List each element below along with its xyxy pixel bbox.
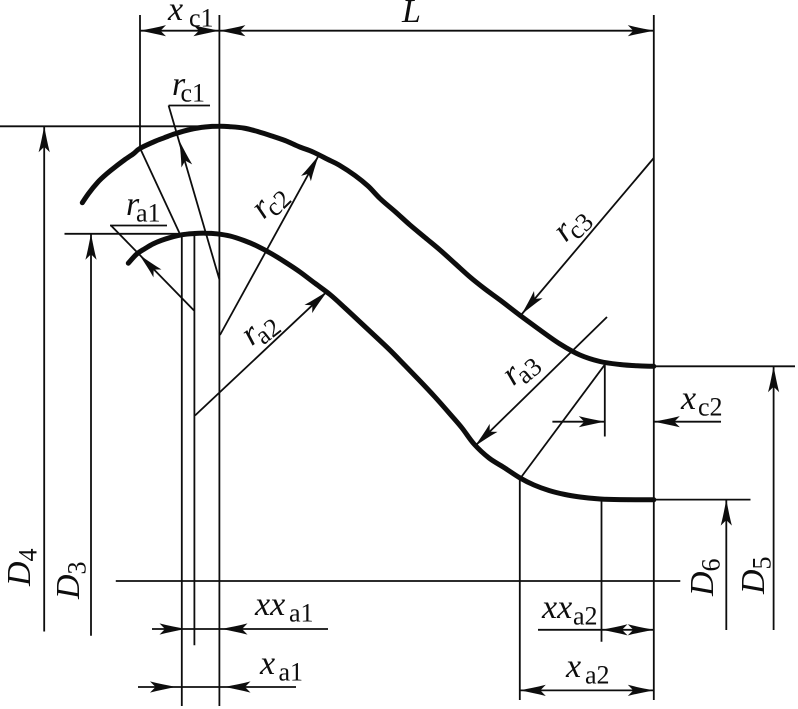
svg-text:x: x — [565, 648, 581, 685]
arrow x_a1 left — [150, 681, 176, 692]
extension line xx_a1 left — [193, 233, 195, 645]
svg-text:D: D — [735, 569, 772, 595]
extension line x_c2 left — [604, 365, 606, 437]
svg-text:a2: a2 — [573, 602, 598, 631]
extension line at D4 level — [0, 125, 222, 127]
svg-text:D: D — [50, 574, 87, 600]
arrow x_a2 left — [520, 685, 546, 696]
svg-text:6: 6 — [697, 559, 726, 572]
dimension line x_c2 right part — [654, 421, 721, 423]
svg-text:x: x — [167, 0, 183, 28]
svg-text:c2: c2 — [698, 393, 723, 422]
dimension line L — [219, 30, 653, 32]
arrow D6 up — [721, 500, 732, 526]
svg-text:D: D — [1, 561, 38, 587]
radius line r_a2 — [195, 291, 327, 415]
dimension line D6 — [725, 500, 727, 630]
svg-text:D: D — [684, 571, 721, 597]
dimension line xx_a1 — [152, 628, 328, 630]
dimension line x_c1 — [140, 30, 219, 32]
label r_c2 — [243, 175, 297, 229]
svg-text:xx: xx — [254, 586, 285, 623]
arrow x_c2 right — [654, 416, 680, 427]
extension line at D6 level — [654, 499, 751, 501]
leader r_c1 — [169, 106, 220, 280]
label D4 — [1, 549, 43, 588]
leader r_a1 — [111, 226, 194, 311]
svg-text:4: 4 — [14, 549, 43, 562]
label D5 — [735, 557, 777, 596]
extension line xx_a2 left — [601, 500, 603, 642]
shelf r_c1 — [169, 105, 210, 107]
radius line r_c2 — [220, 156, 319, 335]
extension line right main (L / x_c2 / xx_a2 / x_a2) — [653, 15, 655, 700]
dimension line x_c2 left part — [552, 421, 604, 423]
svg-text:3: 3 — [63, 562, 92, 575]
arrow x_c1 right — [193, 25, 219, 36]
svg-text:c1: c1 — [189, 4, 214, 33]
extension line x_c1 left (from arc start) — [139, 15, 141, 148]
shelf r_a1 — [110, 225, 167, 227]
svg-text:x: x — [680, 380, 696, 417]
extension line at D5 level — [654, 365, 795, 367]
svg-text:5: 5 — [748, 557, 777, 570]
svg-text:a1: a1 — [279, 658, 304, 687]
arrow xx_a2 left — [602, 624, 628, 635]
label r_c3 — [545, 198, 599, 252]
dimension line x_a1 — [138, 686, 296, 688]
dimension line xx_a2 — [538, 629, 654, 631]
arrow x_a1 right — [225, 681, 251, 692]
joint line at duct outlet — [520, 365, 605, 479]
extension line x_a1 left — [181, 235, 183, 706]
svg-text:L: L — [401, 0, 421, 30]
joint line at duct inlet — [140, 149, 180, 234]
arrow r_c3 — [517, 291, 542, 318]
label r_a2 — [234, 302, 287, 356]
axis baseline — [116, 580, 681, 582]
lower profile curve (hub wall) — [128, 233, 654, 500]
dimension line D5 — [773, 366, 775, 630]
extension line x_a2 left — [519, 479, 521, 700]
arrow xx_a1 left — [160, 623, 186, 634]
arrow r_a3 — [471, 424, 497, 450]
extension line at D3 level — [65, 233, 201, 235]
radius line r_c3 — [522, 158, 654, 315]
arrow L left — [219, 25, 245, 36]
arrow r_c2 — [301, 153, 323, 181]
arrow xx_a2 right — [628, 624, 654, 635]
svg-text:c1: c1 — [181, 79, 206, 108]
arrow x_a2 right — [628, 685, 654, 696]
label D6 — [684, 559, 726, 598]
arrow D4 up — [39, 126, 50, 152]
svg-text:a1: a1 — [136, 199, 161, 228]
centerline through apex (x_c1/L/xx_a1/x_a1 right extension) — [218, 15, 220, 706]
label D3 — [50, 562, 92, 601]
svg-text:xx: xx — [541, 589, 572, 626]
svg-text:a2: a2 — [585, 661, 610, 690]
arrow D3 up — [85, 234, 96, 260]
arrow xx_a1 right — [222, 623, 248, 634]
arrow r_a2 — [305, 287, 332, 313]
svg-text:a1: a1 — [289, 599, 314, 628]
svg-text:x: x — [259, 645, 275, 682]
radius line r_a3 — [475, 317, 607, 446]
dimension line x_a2 — [519, 689, 654, 691]
arrow r_c1 — [174, 139, 192, 167]
arrow r_a1 — [135, 251, 161, 277]
label r_a3 — [494, 342, 547, 396]
arrow x_c2 left — [579, 416, 605, 427]
upper profile curve (shroud wall) — [82, 126, 654, 366]
dimension line D4 — [43, 126, 45, 631]
arrow x_c1 left — [140, 25, 166, 36]
arrow L right — [628, 25, 654, 36]
arrow D5 up — [768, 366, 779, 392]
dimension line D3 — [90, 234, 92, 636]
